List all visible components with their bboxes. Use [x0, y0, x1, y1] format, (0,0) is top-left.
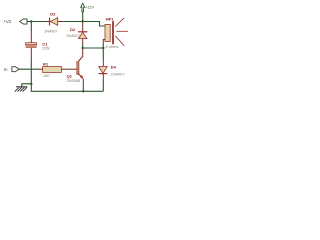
diode D3 — [44, 11, 63, 33]
node dot mid right — [102, 47, 104, 49]
wire D4 to bottom rail corner — [102, 80, 104, 91]
wire mid rail — [83, 47, 104, 49]
wire speaker node down to D4 — [102, 44, 104, 49]
node dot mid left — [82, 47, 84, 49]
wire C1 down to ground tee — [30, 58, 32, 84]
svg-text:D3: D3 — [50, 11, 56, 16]
node dot top rail — [82, 20, 84, 22]
node dot emitter — [82, 90, 84, 92]
svg-text:R1: R1 — [43, 61, 49, 66]
svg-text:100: 100 — [43, 73, 50, 78]
svg-text:1N4007: 1N4007 — [66, 33, 80, 38]
wire terminal to D3 — [27, 21, 45, 23]
power +12V — [81, 3, 95, 21]
node dot ground tee — [30, 83, 32, 85]
diode D4 — [99, 61, 125, 80]
svg-text:D4: D4 — [111, 64, 117, 69]
svg-text:+12V: +12V — [85, 5, 94, 9]
resistor R1 — [39, 61, 68, 78]
svg-text:2N3055: 2N3055 — [67, 78, 81, 83]
capacitor C1 — [26, 22, 50, 59]
svg-text:1N4007: 1N4007 — [111, 71, 125, 76]
terminal In — [4, 67, 19, 72]
wire In to R1 — [19, 68, 39, 70]
svg-text:HP1: HP1 — [106, 16, 115, 21]
wire bottom rail right — [83, 90, 103, 92]
svg-text:+V2: +V2 — [4, 19, 12, 24]
speaker HP1 — [103, 16, 128, 48]
svg-text:1N4007: 1N4007 — [44, 28, 58, 33]
wire node to speaker top pin — [83, 22, 105, 27]
node dot C1 tap — [30, 20, 32, 22]
power terminal +V2 — [4, 19, 28, 24]
wire bottom rail left — [31, 84, 83, 92]
transistor Q1 — [67, 48, 84, 91]
svg-text:22N: 22N — [42, 46, 49, 51]
wire D3 to +12V node — [63, 21, 82, 23]
svg-text:8 ohms: 8 ohms — [106, 44, 119, 49]
wire R1 to Q1 base — [67, 68, 70, 70]
diode D2 — [66, 22, 87, 49]
ground — [15, 84, 32, 92]
svg-text:D2: D2 — [70, 27, 76, 32]
